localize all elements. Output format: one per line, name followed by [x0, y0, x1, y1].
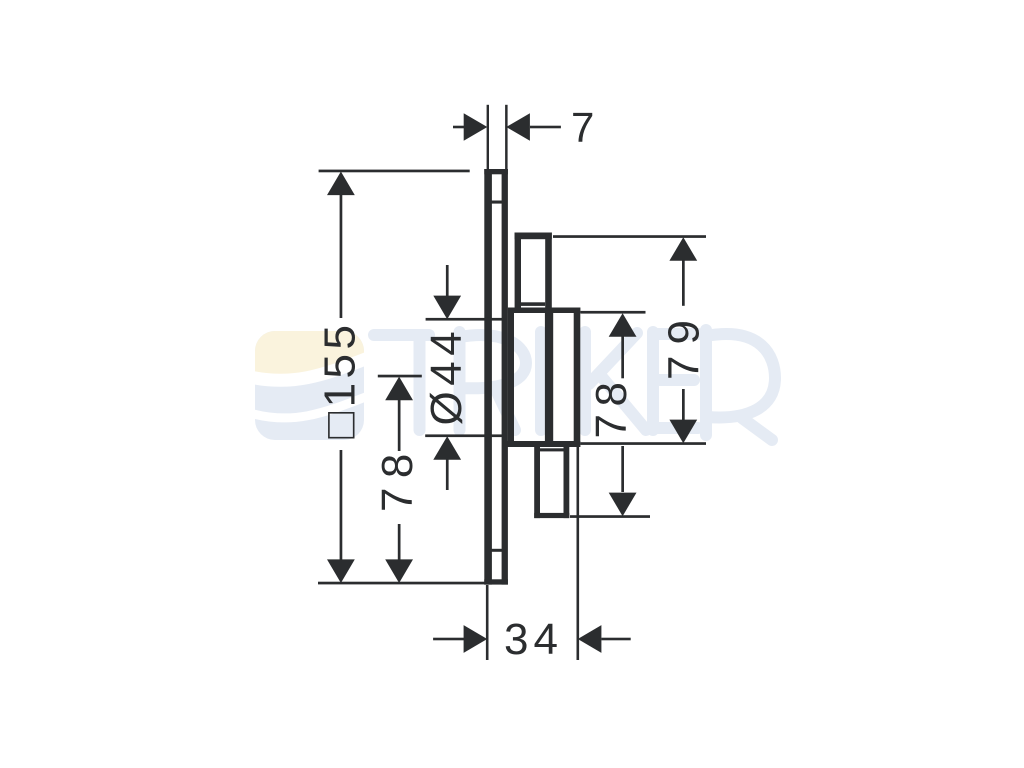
dim79 top extension: [553, 235, 706, 238]
lower pipe inner top line: [540, 448, 564, 451]
dim78R top arrow: [609, 313, 637, 337]
plate inner line upper: [490, 201, 502, 204]
dim155 top arrow: [327, 172, 355, 196]
plate left band: [484, 169, 492, 585]
dim78R bottom extension: [570, 515, 650, 518]
dim44 arrow down: [433, 296, 461, 320]
dim79 line lower: [682, 389, 685, 421]
dim155 line lower: [340, 450, 343, 560]
dim44 arrow up: [433, 436, 461, 460]
plate bottom cap: [484, 579, 508, 584]
dim34 arrow right: [578, 625, 602, 653]
dim7 arrow right: [506, 113, 530, 141]
dim7 tail left: [453, 126, 465, 129]
dim44 top extension: [426, 318, 504, 321]
svg-text:7: 7: [571, 103, 594, 150]
lower pipe bottom cap: [534, 513, 569, 518]
svg-text:78: 78: [373, 444, 422, 512]
svg-text:79: 79: [660, 309, 709, 380]
lower pipe left band: [534, 447, 540, 518]
dim44 line bottom: [446, 459, 449, 490]
dim78L line upper: [398, 399, 401, 451]
upper pipe top cap: [515, 233, 552, 240]
dim7 extension line left: [487, 105, 489, 170]
dim79 bottom arrow: [669, 420, 697, 444]
dim155 line upper: [340, 194, 343, 318]
svg-text:Ø44: Ø44: [422, 326, 471, 426]
upper pipe inner bottom line: [521, 302, 545, 306]
dim155 bottom arrow: [327, 559, 355, 583]
dim78L top extension: [378, 375, 422, 378]
dim44 bottom extension: [425, 434, 504, 437]
dim78L top arrow: [385, 377, 413, 401]
dim155 bottom extension: [318, 582, 485, 585]
watermark text TRIKER: [374, 330, 775, 440]
dim78R top extension: [581, 311, 646, 314]
lower pipe right band: [564, 447, 570, 518]
dim7 tail right: [530, 126, 561, 129]
body bottom edge: [503, 441, 580, 447]
dim34 tail left: [433, 638, 464, 641]
dim78R line lower: [621, 446, 624, 492]
plate right band: [502, 169, 508, 585]
plate top cap: [484, 169, 508, 174]
dim79 top arrow: [669, 237, 697, 261]
dim7 extension line right: [505, 105, 508, 170]
dim78L bottom arrow: [385, 559, 413, 583]
dim34 tail right: [601, 638, 630, 641]
plate inner line lower: [490, 549, 502, 552]
svg-text:□155: □155: [316, 321, 365, 439]
svg-text:34: 34: [504, 615, 563, 664]
dim34 extension left: [486, 585, 489, 660]
body top edge: [508, 308, 580, 314]
dim79 bottom extension: [581, 442, 707, 445]
body left band: [508, 308, 514, 448]
dim78R bottom arrow: [609, 493, 637, 517]
dim79 line upper: [682, 260, 685, 306]
dim7 arrow left: [464, 113, 488, 141]
watermark logo: [250, 331, 368, 440]
upper pipe right band: [545, 233, 552, 314]
dim34 arrow left: [464, 625, 488, 653]
dim78L line lower: [398, 524, 401, 560]
upper pipe left band: [515, 233, 521, 309]
dim78R line upper: [621, 336, 624, 379]
body right band: [574, 308, 581, 448]
dim155 top extension: [319, 170, 470, 173]
body divider: [545, 313, 553, 441]
dim44 line top: [446, 265, 449, 296]
dim34 extension right: [577, 447, 580, 660]
svg-text:78: 78: [587, 375, 636, 439]
